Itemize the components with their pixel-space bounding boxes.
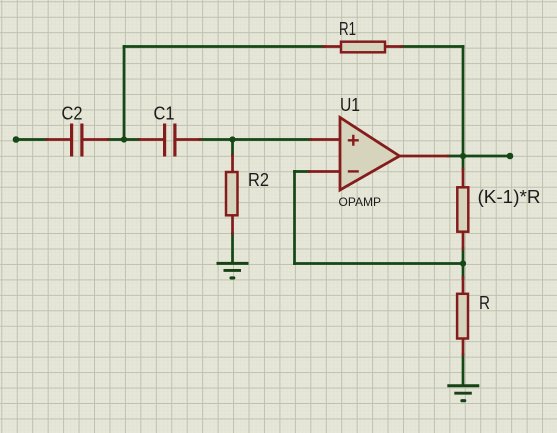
svg-text:C1: C1 [154,103,175,123]
wire feedback bottom run [295,262,464,265]
capacitor C2 plates [70,124,84,157]
wire op-amp output to terminal [448,155,510,158]
wire output node to (K-1)*R [462,156,465,169]
op-amp U1 inverting input pin [309,170,340,173]
wire node B down to R2 [231,140,234,156]
node C junction dot [460,260,466,266]
wire right drop to output node [462,47,465,157]
op-amp U1 minus symbol [348,170,359,172]
wire node C to R [462,264,465,279]
wire R to ground [462,355,465,386]
resistor R body [457,294,468,339]
op-amp U1 triangle [340,118,400,191]
resistor R pin bottom [462,340,465,355]
resistor R2 body [226,172,238,215]
output terminal dot [507,153,514,160]
wire C2 to C1 (through node A) [108,138,139,141]
output node junction dot [460,153,466,159]
op-amp U1 non-inverting input pin [311,138,340,141]
resistor (K-1)*R pin top [462,169,465,187]
wire input to C2 [16,138,47,141]
capacitor C1 pin right [177,138,201,141]
svg-text:U1: U1 [340,95,360,115]
resistor R1 body [341,42,385,53]
op-amp U1 output pin [400,155,449,158]
resistor R pin top [462,278,465,294]
resistor (K-1)*R pin bottom [462,233,465,249]
capacitor C2 pin left [47,138,71,141]
svg-text:(K-1)*R: (K-1)*R [478,187,541,207]
wire R2 to ground [231,234,234,263]
ground (R2) [217,263,249,278]
ground (R) [447,386,479,401]
wire C1 to op-amp non-inverting pin [200,138,311,141]
resistor R2 pin bottom [231,217,234,234]
wire top rail left of R1 [124,45,325,48]
node B junction dot [229,136,235,142]
wire riser node A up to top rail [123,47,126,140]
svg-text:R1: R1 [339,19,356,39]
capacitor C1 pin left [139,138,164,141]
capacitor C1 plates [163,124,177,157]
input terminal dot [13,136,20,143]
wire top rail right of R1 [402,45,464,48]
op-amp U1 plus symbol [348,135,359,146]
wire feedback horizontal to inverting pin [295,170,310,173]
svg-text:OPAMP: OPAMP [339,195,381,209]
resistor R1 pin right [386,45,402,48]
resistor R2 pin top [231,155,234,171]
svg-text:C2: C2 [62,103,83,123]
capacitor C2 pin right [84,138,109,141]
resistor R1 pin left [324,45,341,48]
svg-text:R: R [479,293,490,313]
node A junction dot [121,136,127,142]
wire (K-1)*R to node C [462,249,465,264]
svg-text:R2: R2 [248,170,269,190]
wire feedback vertical [293,172,296,264]
resistor (K-1)*R body [457,187,468,231]
